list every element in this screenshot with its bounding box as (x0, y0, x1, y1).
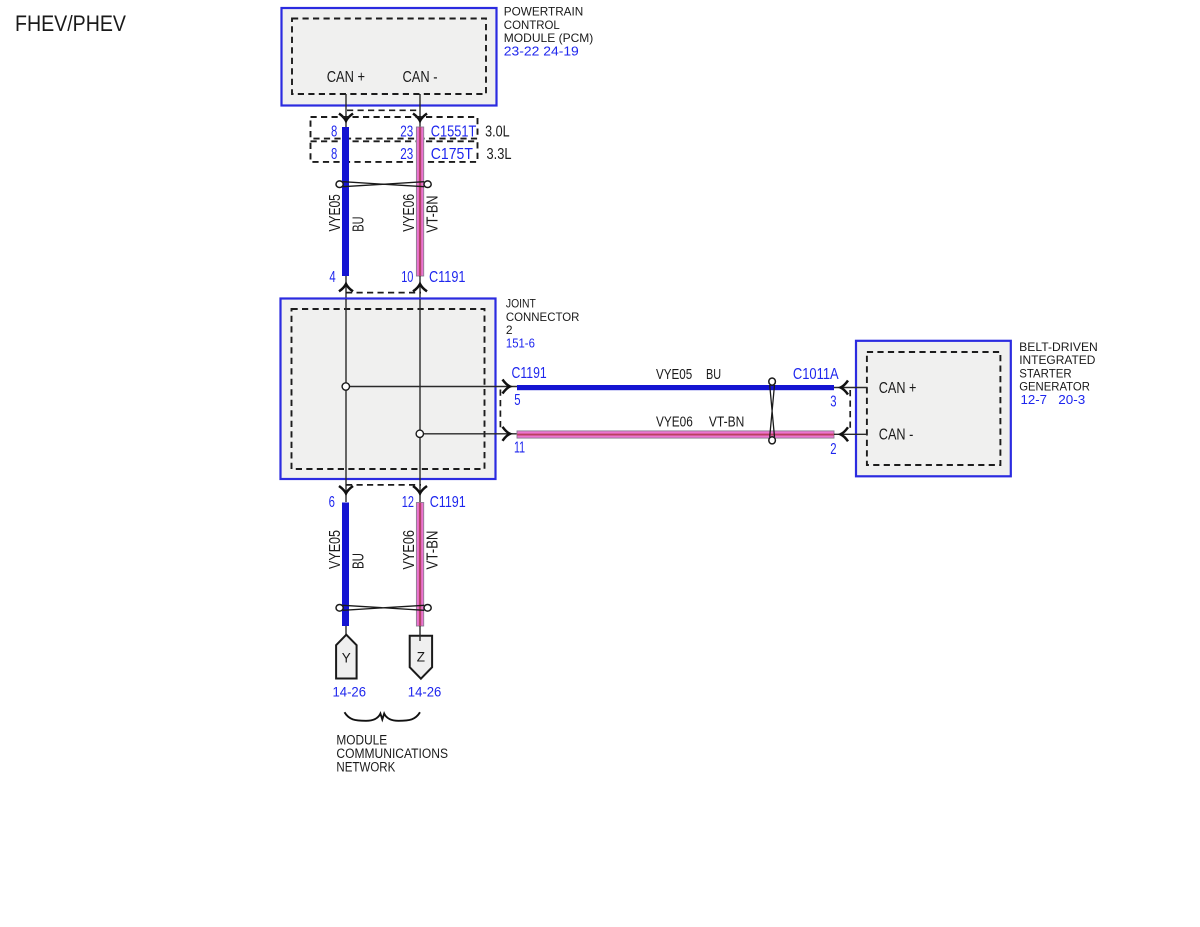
svg-text:4: 4 (329, 269, 336, 286)
arrow left into C1011A pin 2 (841, 427, 849, 441)
svg-text:6: 6 (329, 494, 335, 511)
wire stub into BISG CAN- (834, 433, 868, 435)
svg-text:C1011A: C1011A (793, 366, 839, 383)
svg-text:5: 5 (514, 392, 520, 409)
arrow right out of joint connector pin 11 (503, 427, 511, 441)
svg-text:12-7: 12-7 (1021, 393, 1048, 407)
svg-text:8: 8 (331, 124, 337, 141)
svg-text:14-26: 14-26 (408, 684, 442, 699)
svg-text:STARTER: STARTER (1019, 366, 1072, 380)
wire VYE05 BU vertical top segment (342, 127, 349, 276)
svg-text:VYE05: VYE05 (327, 194, 344, 231)
connector row C175T dashed box (311, 141, 478, 162)
PCM component name label (504, 5, 594, 59)
wire VYE06 VT-BN vertical top segment (416, 127, 423, 276)
svg-text:12: 12 (402, 494, 414, 511)
svg-text:10: 10 (401, 269, 413, 286)
svg-text:CONTROL: CONTROL (504, 18, 560, 32)
svg-text:VYE06: VYE06 (401, 530, 418, 570)
arrow up into joint connector pin 4 (339, 284, 353, 292)
internal wire to CAN+ output (346, 386, 517, 388)
arrow down out of joint pin 6 (339, 486, 353, 494)
svg-text:VT-BN: VT-BN (709, 414, 745, 430)
wire stub into terminator Z (419, 626, 421, 641)
wire VYE05 BU horizontal (517, 385, 834, 390)
dashed connector bracket C1011A (849, 390, 851, 431)
wire from PCM CAN+ to connector (345, 94, 347, 127)
wire stub into BISG CAN+ (834, 387, 868, 389)
wire into joint connector left (345, 276, 347, 299)
junction node on CAN- bus (416, 430, 423, 437)
svg-text:CAN -: CAN - (403, 69, 438, 86)
svg-text:3.3L: 3.3L (487, 146, 512, 163)
svg-text:CAN +: CAN + (879, 380, 917, 397)
junction node on CAN+ bus (342, 383, 349, 390)
svg-text:CAN -: CAN - (879, 426, 914, 443)
arrow right out of joint connector pin 5 (503, 380, 511, 394)
svg-text:2: 2 (506, 323, 513, 337)
twisted pair symbol bottom (336, 605, 431, 612)
svg-text:C1191: C1191 (429, 269, 466, 286)
svg-text:C1191: C1191 (430, 494, 466, 511)
svg-text:GENERATOR: GENERATOR (1019, 380, 1090, 394)
arrow up into joint connector pin 10 (413, 284, 427, 292)
wire VYE06 VT-BN horizontal (517, 431, 834, 438)
twisted pair symbol horizontal wires (769, 378, 776, 444)
svg-text:2: 2 (830, 441, 836, 458)
internal wire to CAN- output (420, 433, 517, 435)
dashed connector bracket C1191 bottom (346, 484, 421, 486)
svg-text:C1191: C1191 (512, 365, 547, 382)
svg-text:FHEV/PHEV: FHEV/PHEV (15, 11, 126, 36)
dashed connector bracket C1191 right (499, 390, 501, 432)
svg-text:VT-BN: VT-BN (425, 531, 442, 570)
wire into joint connector right (419, 276, 421, 299)
svg-text:VYE05: VYE05 (656, 367, 692, 383)
dashed harness bracket between arrows (347, 109, 419, 111)
joint connector 2 name label (506, 296, 580, 350)
arrow down into C1551T pin 23 (413, 114, 427, 122)
svg-text:23: 23 (400, 124, 413, 141)
svg-text:BU: BU (706, 367, 721, 383)
joint connector 2 box (281, 299, 496, 480)
wire from PCM CAN- to connector (419, 94, 421, 127)
network grouping brace (345, 712, 421, 721)
svg-text:14-26: 14-26 (333, 684, 367, 699)
svg-text:BU: BU (351, 217, 368, 232)
dashed connector bracket C1191 top (346, 292, 421, 294)
network name label (336, 733, 448, 775)
terminator Y symbol (336, 635, 357, 679)
powertrain control module PCM box (282, 8, 497, 106)
internal bus wire right vertical (419, 299, 421, 479)
wire stub into terminator Y (345, 626, 347, 636)
svg-text:CAN +: CAN + (327, 69, 365, 86)
svg-text:VYE06: VYE06 (401, 194, 418, 232)
wire VYE05 BU vertical bottom segment (342, 503, 349, 627)
svg-text:151-6: 151-6 (506, 336, 535, 350)
wire out of joint connector bottom right (419, 479, 421, 502)
svg-text:C175T: C175T (431, 146, 474, 163)
arrow down out of joint pin 12 (413, 486, 427, 494)
svg-text:3.0L: 3.0L (485, 124, 510, 141)
twisted pair symbol top (336, 181, 431, 188)
arrow down into C1551T pin 8 (339, 114, 353, 122)
svg-text:Y: Y (342, 650, 351, 665)
wire out of joint connector bottom left (345, 479, 347, 502)
svg-text:8: 8 (331, 146, 337, 163)
svg-text:VYE05: VYE05 (327, 530, 344, 569)
internal bus wire left vertical (345, 299, 347, 479)
svg-text:11: 11 (514, 439, 525, 456)
svg-text:20-3: 20-3 (1058, 393, 1085, 407)
svg-text:23-22 24-19: 23-22 24-19 (504, 44, 579, 58)
terminator Z symbol (410, 636, 432, 679)
svg-text:BU: BU (351, 553, 368, 569)
svg-text:CONNECTOR: CONNECTOR (506, 310, 580, 324)
BISG component name label (1019, 340, 1098, 407)
svg-text:C1551T: C1551T (431, 124, 477, 141)
svg-text:Z: Z (417, 650, 425, 665)
svg-text:VT-BN: VT-BN (425, 196, 442, 233)
svg-text:NETWORK: NETWORK (336, 759, 395, 774)
connector row C1551T dashed box (311, 117, 478, 139)
svg-text:BELT-DRIVEN: BELT-DRIVEN (1019, 340, 1098, 354)
svg-text:JOINT: JOINT (506, 296, 537, 310)
svg-text:23: 23 (400, 146, 413, 163)
wire VYE06 VT-BN vertical bottom segment (416, 503, 423, 627)
arrow left into C1011A pin 3 (841, 381, 849, 395)
svg-text:3: 3 (830, 393, 836, 410)
svg-text:VYE06: VYE06 (656, 414, 693, 430)
svg-text:POWERTRAIN: POWERTRAIN (504, 5, 584, 19)
svg-text:MODULE (PCM): MODULE (PCM) (504, 31, 594, 45)
svg-text:INTEGRATED: INTEGRATED (1019, 353, 1096, 367)
belt-driven integrated starter generator box (856, 341, 1011, 477)
